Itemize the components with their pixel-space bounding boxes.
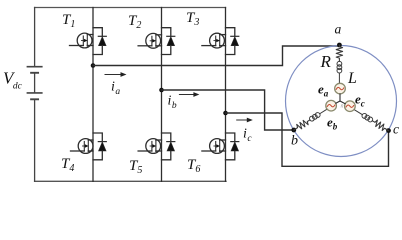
source e_b: [326, 100, 337, 111]
wire: inverter leg 1: [92, 8, 94, 182]
svg-text:a: a: [335, 22, 342, 37]
node: phase b junction: [159, 88, 164, 93]
label T6: [187, 157, 200, 175]
label L: [347, 70, 357, 87]
diode D1: [93, 28, 106, 55]
current arrow i_a: [105, 72, 127, 77]
node n (neutral): [341, 104, 344, 110]
label T1: [62, 12, 75, 30]
transistor T4: [71, 139, 94, 154]
svg-text:n: n: [341, 104, 344, 110]
source e_c: [345, 101, 356, 112]
label T4: [61, 156, 74, 174]
svg-text:R: R: [320, 52, 332, 71]
wire: e_a to neutral: [339, 94, 341, 101]
transistor T3: [202, 33, 226, 48]
wire: phase c to motor terminal c: [226, 113, 389, 166]
svg-text:T1: T1: [62, 12, 75, 30]
svg-text:ic: ic: [243, 127, 252, 145]
label Vdc: [3, 69, 23, 92]
wire: phase b to motor terminal b: [162, 90, 294, 130]
node c (motor terminal): [386, 128, 391, 133]
current arrow i_b: [179, 92, 199, 97]
transistor T6: [202, 139, 226, 154]
inductor L (phase a): [337, 61, 342, 83]
inductor L (phase b): [309, 107, 329, 122]
label T5: [129, 158, 142, 176]
svg-text:L: L: [347, 70, 357, 87]
battery Vdc: [27, 8, 41, 182]
svg-text:ea: ea: [318, 82, 329, 99]
current arrow i_c: [237, 118, 253, 123]
node: phase c junction: [223, 111, 228, 116]
inductor L (phase c): [353, 108, 374, 123]
label b: [291, 134, 298, 149]
label c: [393, 122, 399, 137]
diode D5: [162, 133, 175, 160]
label T2: [128, 13, 141, 31]
diode D4: [93, 133, 106, 160]
label i_a: [111, 80, 120, 98]
node: phase a junction: [91, 63, 96, 68]
diode D3: [226, 28, 239, 55]
wire: inverter leg 3: [225, 8, 227, 182]
svg-text:c: c: [393, 122, 399, 137]
label e_c: [355, 92, 365, 109]
resistor R (phase b): [292, 117, 311, 133]
source e_a: [335, 83, 346, 94]
wire: e_c to neutral: [340, 101, 345, 104]
svg-text:T4: T4: [61, 156, 74, 174]
svg-text:Vdc: Vdc: [3, 69, 23, 92]
svg-text:T3: T3: [186, 10, 199, 28]
transistor T2: [138, 33, 161, 48]
diode D6: [226, 133, 239, 160]
wire: inverter leg 2: [161, 8, 163, 182]
label i_b: [168, 94, 177, 112]
wire: e_b to neutral: [336, 101, 340, 103]
label T3: [186, 10, 199, 28]
svg-text:ib: ib: [168, 94, 177, 112]
svg-text:b: b: [291, 134, 298, 149]
node b (motor terminal): [291, 128, 296, 133]
transistor T1: [70, 33, 94, 48]
node a (motor terminal): [337, 43, 342, 48]
transistor T5: [138, 139, 161, 154]
wire: bottom DC rail: [35, 180, 226, 182]
svg-text:T2: T2: [128, 13, 141, 31]
svg-text:T6: T6: [187, 157, 200, 175]
label e_a: [318, 82, 329, 99]
wire: top DC rail: [35, 7, 226, 9]
svg-text:ia: ia: [111, 80, 120, 98]
svg-text:eb: eb: [327, 115, 338, 132]
resistor R (phase c): [371, 118, 391, 133]
label a: [335, 22, 342, 37]
label e_b: [327, 115, 338, 132]
svg-text:ec: ec: [355, 92, 365, 109]
wire: phase a to motor terminal a: [93, 46, 339, 66]
diode D2: [162, 28, 175, 55]
motor stator circle: [286, 46, 397, 157]
label i_c: [243, 127, 252, 145]
label R: [320, 52, 332, 71]
resistor R (phase a): [336, 45, 342, 61]
svg-text:T5: T5: [129, 158, 142, 176]
